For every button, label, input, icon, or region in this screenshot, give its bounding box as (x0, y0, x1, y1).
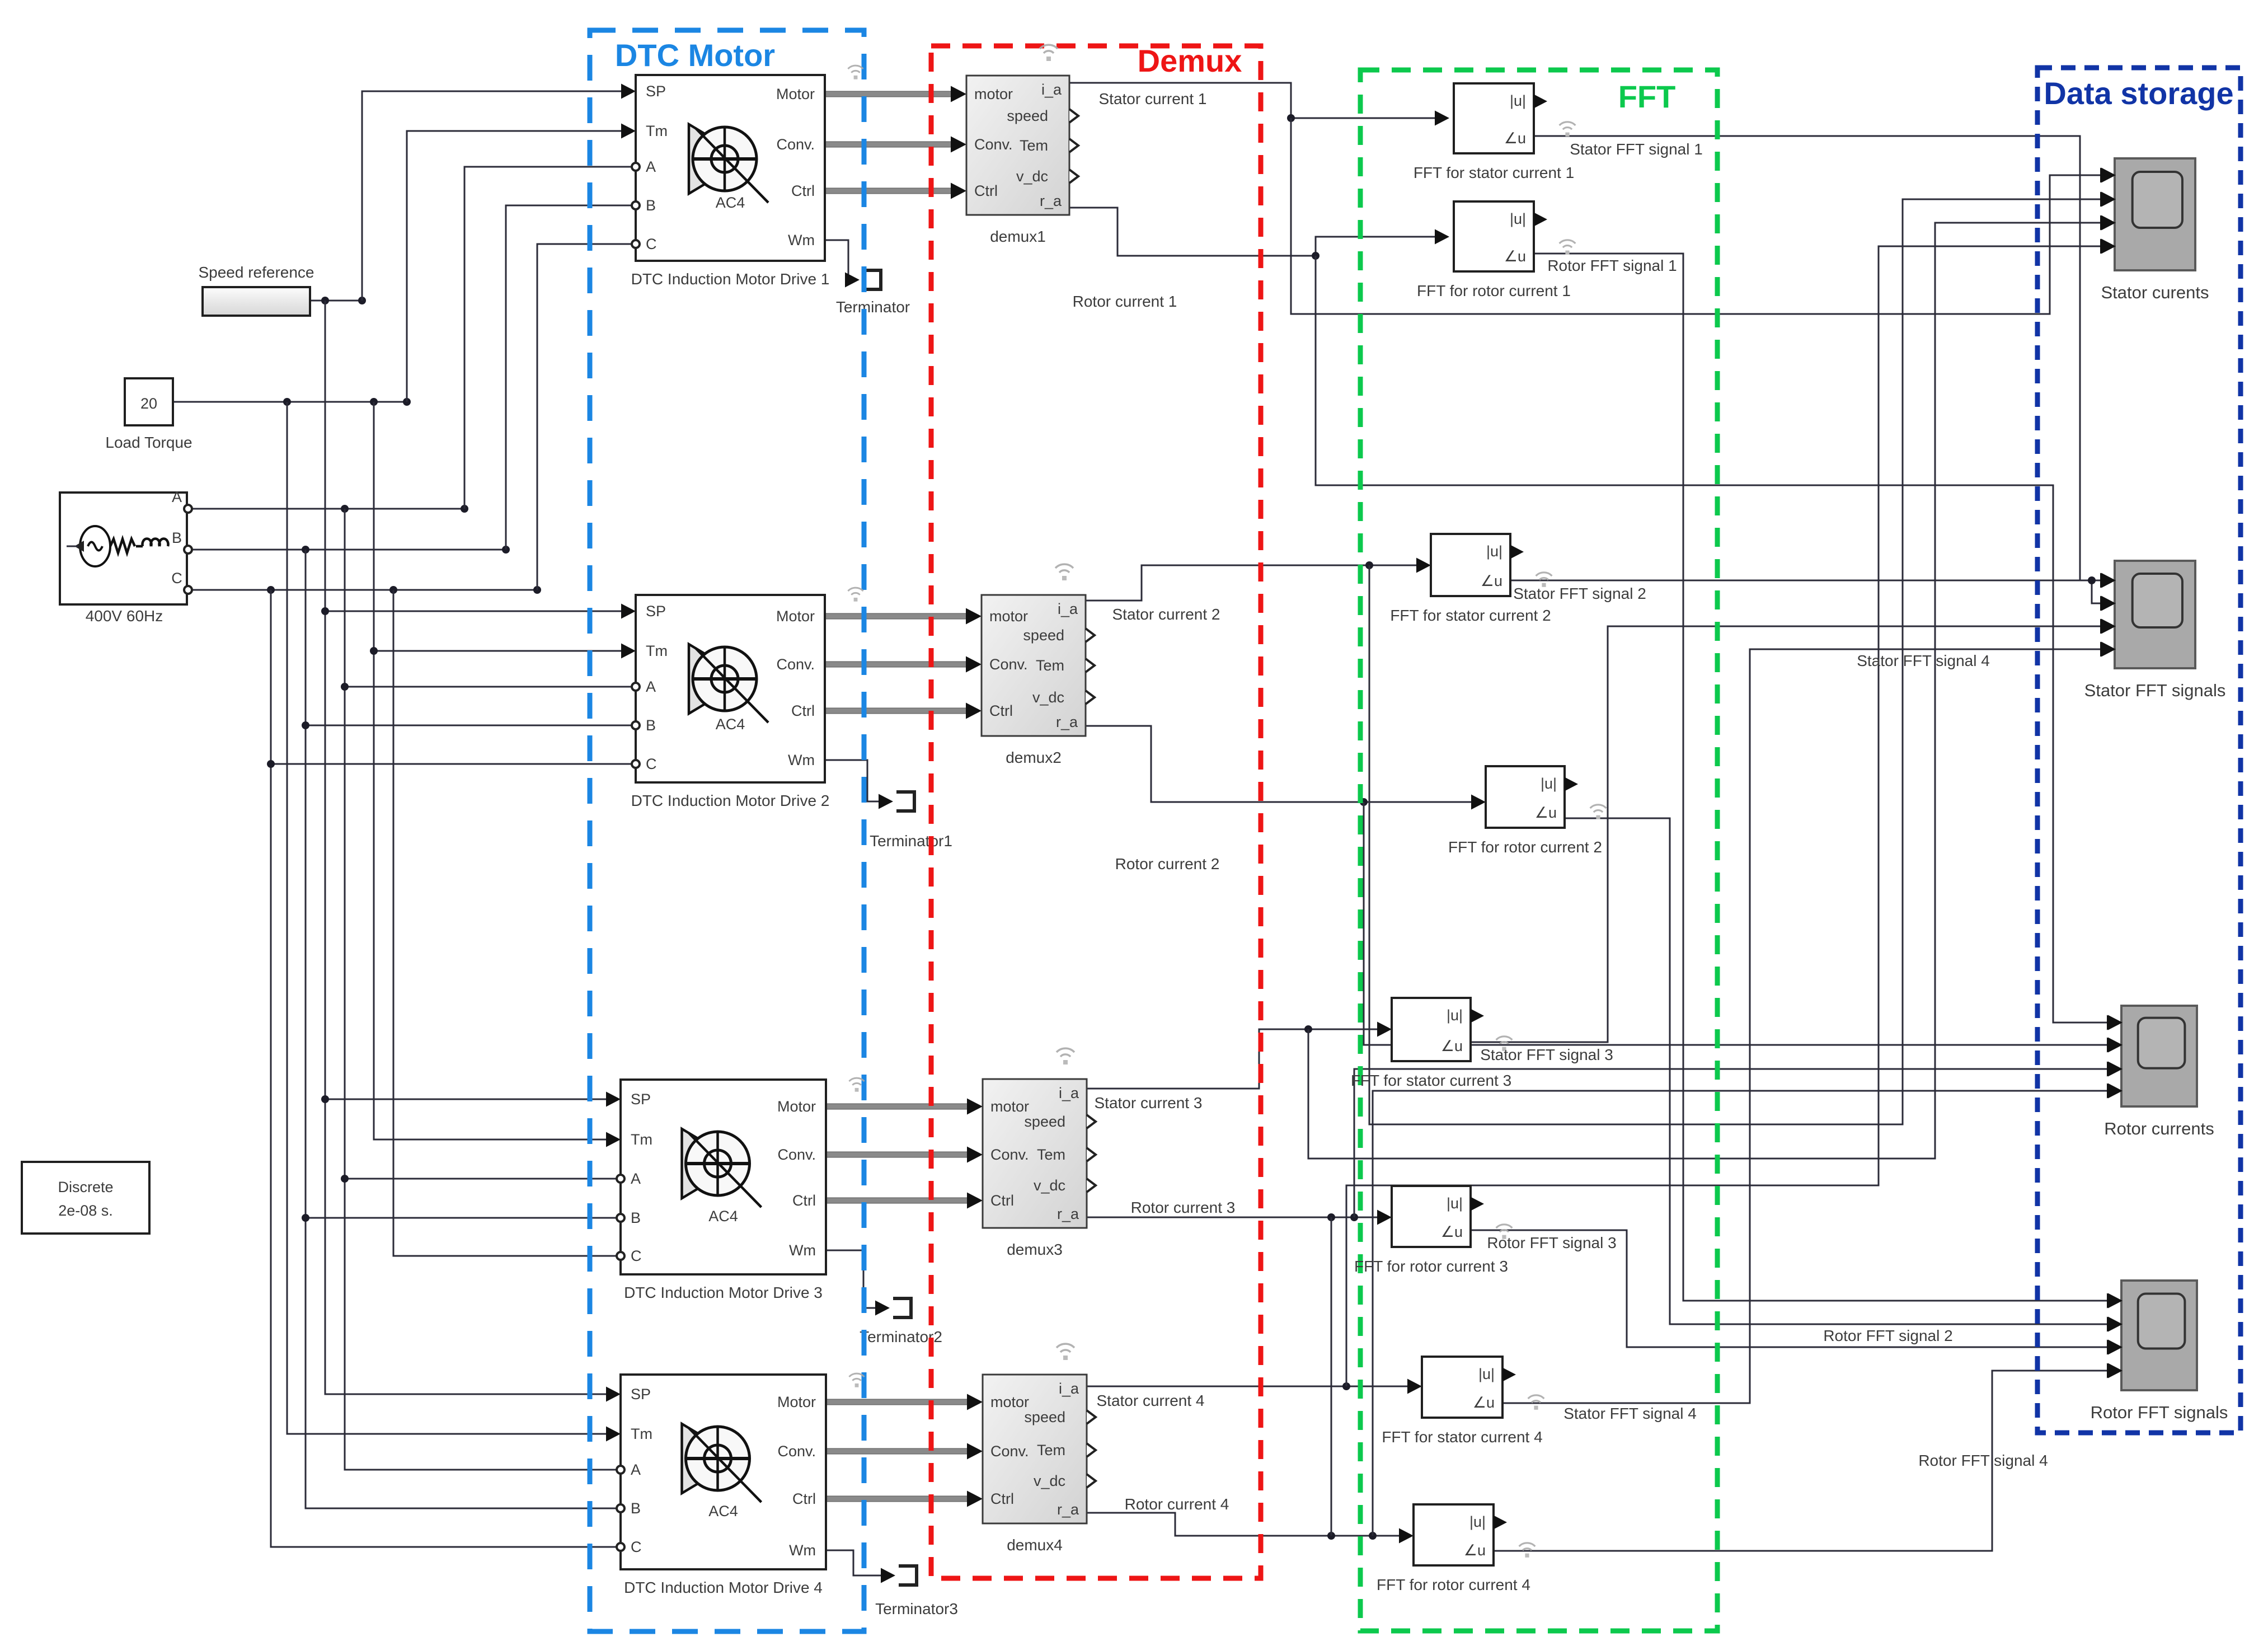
svg-text:Terminator3: Terminator3 (875, 1600, 958, 1617)
svg-text:FFT for stator current 3: FFT for stator current 3 (1351, 1072, 1511, 1089)
svg-text:|u|: |u| (1510, 92, 1526, 109)
svg-text:motor: motor (989, 608, 1028, 625)
svg-text:Terminator: Terminator (836, 298, 910, 316)
svg-text:v_dc: v_dc (1034, 1177, 1065, 1194)
svg-text:|u|: |u| (1447, 1195, 1463, 1212)
svg-text:Motor: Motor (777, 1394, 816, 1410)
svg-text:∠u: ∠u (1481, 573, 1502, 589)
svg-text:demux4: demux4 (1007, 1536, 1063, 1554)
svg-text:SP: SP (631, 1386, 651, 1403)
svg-text:∠u: ∠u (1441, 1223, 1463, 1240)
svg-text:Speed reference: Speed reference (198, 264, 314, 281)
svg-text:i_a: i_a (1041, 81, 1062, 98)
svg-text:Tm: Tm (646, 123, 668, 139)
svg-text:Ctrl: Ctrl (974, 182, 998, 199)
svg-text:DTC Induction Motor Drive 2: DTC Induction Motor Drive 2 (631, 792, 830, 809)
svg-text:Tm: Tm (646, 643, 668, 659)
svg-text:AC4: AC4 (716, 194, 745, 211)
svg-text:2e-08 s.: 2e-08 s. (58, 1202, 113, 1219)
svg-text:Stator FFT signal 4: Stator FFT signal 4 (1563, 1405, 1697, 1422)
svg-text:Ctrl: Ctrl (791, 182, 815, 199)
svg-text:A: A (646, 678, 656, 695)
svg-text:demux2: demux2 (1006, 749, 1062, 766)
svg-text:C: C (646, 236, 657, 252)
svg-text:|u|: |u| (1510, 210, 1526, 227)
svg-text:Ctrl: Ctrl (990, 1490, 1014, 1507)
svg-text:Wm: Wm (789, 1242, 816, 1259)
svg-text:Wm: Wm (788, 752, 815, 768)
svg-text:Stator FFT signal 3: Stator FFT signal 3 (1480, 1046, 1613, 1063)
svg-text:B: B (646, 197, 656, 214)
svg-text:r_a: r_a (1040, 193, 1062, 209)
svg-text:Rotor current 4: Rotor current 4 (1125, 1495, 1229, 1513)
svg-text:Data storage: Data storage (2044, 76, 2233, 111)
svg-text:Tem: Tem (1036, 657, 1064, 674)
svg-text:Ctrl: Ctrl (791, 702, 815, 719)
svg-text:v_dc: v_dc (1016, 168, 1048, 185)
svg-text:v_dc: v_dc (1032, 689, 1064, 706)
svg-text:∠u: ∠u (1441, 1038, 1463, 1054)
svg-text:speed: speed (1023, 627, 1064, 644)
svg-text:Conv.: Conv. (777, 1443, 816, 1460)
svg-text:Tem: Tem (1037, 1146, 1065, 1163)
svg-text:Wm: Wm (788, 232, 815, 248)
svg-text:Stator curents: Stator curents (2101, 283, 2209, 302)
svg-text:i_a: i_a (1059, 1085, 1079, 1101)
svg-text:Stator current 2: Stator current 2 (1112, 606, 1220, 623)
svg-text:Tem: Tem (1037, 1442, 1065, 1459)
svg-text:SP: SP (646, 603, 666, 620)
svg-text:SP: SP (631, 1091, 651, 1108)
svg-text:A: A (631, 1170, 641, 1187)
svg-text:Discrete: Discrete (58, 1179, 113, 1195)
svg-text:Tm: Tm (631, 1131, 652, 1148)
svg-text:Motor: Motor (776, 608, 815, 625)
svg-text:∠u: ∠u (1473, 1394, 1495, 1411)
svg-text:B: B (631, 1209, 641, 1226)
svg-text:Stator FFT signal 4: Stator FFT signal 4 (1857, 652, 1990, 669)
svg-text:demux3: demux3 (1007, 1241, 1063, 1258)
svg-text:Ctrl: Ctrl (990, 1192, 1014, 1209)
svg-text:A: A (631, 1461, 641, 1478)
svg-text:speed: speed (1024, 1409, 1065, 1425)
svg-text:Motor: Motor (776, 86, 815, 102)
svg-text:FFT for stator current 2: FFT for stator current 2 (1390, 607, 1551, 624)
svg-text:Rotor current 3: Rotor current 3 (1131, 1199, 1236, 1216)
svg-text:Tem: Tem (1020, 137, 1048, 154)
svg-text:∠u: ∠u (1504, 130, 1526, 147)
svg-text:motor: motor (990, 1394, 1029, 1410)
svg-text:Conv.: Conv. (989, 656, 1028, 673)
svg-text:Conv.: Conv. (990, 1443, 1029, 1460)
svg-text:AC4: AC4 (716, 716, 745, 733)
svg-text:Conv.: Conv. (974, 136, 1013, 153)
svg-text:i_a: i_a (1058, 601, 1078, 617)
svg-text:A: A (172, 489, 182, 505)
svg-text:Demux: Demux (1138, 43, 1242, 78)
svg-text:Stator current 1: Stator current 1 (1099, 90, 1207, 107)
svg-text:FFT for rotor current 1: FFT for rotor current 1 (1417, 282, 1571, 299)
svg-text:r_a: r_a (1057, 1206, 1079, 1222)
svg-text:B: B (646, 717, 656, 734)
svg-text:|u|: |u| (1447, 1007, 1463, 1024)
svg-text:AC4: AC4 (708, 1208, 738, 1225)
svg-text:Load Torque: Load Torque (105, 434, 192, 451)
svg-text:Motor: Motor (777, 1098, 816, 1115)
svg-text:FFT for stator current 1: FFT for stator current 1 (1414, 164, 1574, 181)
svg-text:C: C (631, 1248, 642, 1264)
svg-text:C: C (646, 756, 657, 772)
svg-text:400V 60Hz: 400V 60Hz (86, 607, 163, 625)
svg-text:FFT: FFT (1618, 79, 1676, 114)
svg-text:Rotor FFT signal 3: Rotor FFT signal 3 (1487, 1234, 1616, 1251)
svg-text:motor: motor (974, 86, 1013, 102)
svg-text:Conv.: Conv. (776, 656, 815, 673)
svg-text:Rotor current 2: Rotor current 2 (1115, 855, 1220, 873)
svg-text:B: B (172, 529, 182, 546)
svg-text:Stator current 3: Stator current 3 (1095, 1094, 1203, 1112)
svg-text:Conv.: Conv. (990, 1146, 1029, 1163)
svg-text:Rotor current 1: Rotor current 1 (1073, 293, 1177, 310)
svg-text:|u|: |u| (1486, 543, 1502, 560)
svg-text:B: B (631, 1500, 641, 1517)
svg-text:Stator FFT signal 1: Stator FFT signal 1 (1570, 140, 1703, 158)
svg-text:Terminator1: Terminator1 (870, 832, 952, 850)
svg-text:Conv.: Conv. (777, 1146, 816, 1163)
svg-text:∠u: ∠u (1535, 804, 1557, 821)
svg-text:|u|: |u| (1541, 775, 1557, 792)
svg-text:FFT for rotor current 4: FFT for rotor current 4 (1377, 1576, 1530, 1593)
svg-text:DTC Induction Motor Drive 1: DTC Induction Motor Drive 1 (631, 270, 830, 288)
svg-text:demux1: demux1 (990, 228, 1046, 245)
svg-text:FFT for rotor current 2: FFT for rotor current 2 (1448, 838, 1602, 856)
svg-text:Tm: Tm (631, 1425, 652, 1442)
svg-text:r_a: r_a (1057, 1501, 1079, 1518)
svg-text:Rotor currents: Rotor currents (2104, 1119, 2214, 1138)
svg-text:20: 20 (140, 395, 157, 412)
svg-text:|u|: |u| (1469, 1513, 1486, 1530)
svg-text:Rotor FFT signal 2: Rotor FFT signal 2 (1823, 1327, 1952, 1344)
svg-text:speed: speed (1007, 107, 1048, 124)
svg-text:Conv.: Conv. (776, 136, 815, 153)
svg-text:A: A (646, 158, 656, 175)
svg-text:DTC Motor: DTC Motor (615, 37, 775, 73)
svg-text:Stator FFT signals: Stator FFT signals (2084, 681, 2226, 700)
svg-text:r_a: r_a (1056, 714, 1078, 730)
svg-text:DTC Induction Motor Drive 4: DTC Induction Motor Drive 4 (624, 1579, 823, 1596)
svg-text:∠u: ∠u (1504, 248, 1526, 265)
svg-text:Stator current 4: Stator current 4 (1097, 1392, 1205, 1409)
svg-text:Wm: Wm (789, 1542, 816, 1559)
svg-text:C: C (631, 1539, 642, 1555)
svg-text:Rotor FFT signals: Rotor FFT signals (2091, 1403, 2228, 1422)
svg-text:Stator FFT signal 2: Stator FFT signal 2 (1513, 585, 1646, 602)
svg-text:Rotor FFT signal 1: Rotor FFT signal 1 (1547, 257, 1677, 274)
svg-text:∠u: ∠u (1464, 1542, 1486, 1559)
svg-text:AC4: AC4 (708, 1503, 738, 1520)
svg-text:motor: motor (990, 1098, 1029, 1115)
svg-text:v_dc: v_dc (1034, 1473, 1065, 1489)
svg-text:C: C (171, 570, 182, 587)
svg-text:SP: SP (646, 83, 666, 100)
svg-text:FFT for stator current 4: FFT for stator current 4 (1382, 1428, 1542, 1446)
svg-text:|u|: |u| (1478, 1366, 1495, 1382)
svg-text:Rotor FFT signal 4: Rotor FFT signal 4 (1918, 1452, 2048, 1469)
svg-text:Ctrl: Ctrl (989, 702, 1013, 719)
svg-text:i_a: i_a (1059, 1380, 1079, 1397)
svg-text:FFT for rotor current 3: FFT for rotor current 3 (1354, 1258, 1508, 1275)
svg-text:Ctrl: Ctrl (792, 1490, 816, 1507)
svg-text:speed: speed (1024, 1113, 1065, 1130)
svg-text:Ctrl: Ctrl (792, 1192, 816, 1209)
svg-text:DTC Induction Motor Drive 3: DTC Induction Motor Drive 3 (624, 1284, 823, 1301)
